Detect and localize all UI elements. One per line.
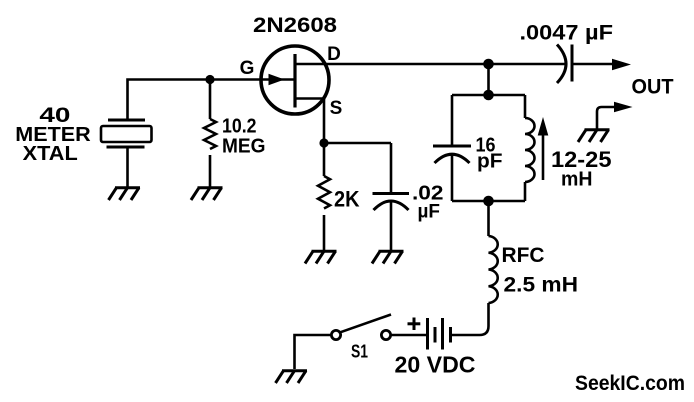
svg-text:D: D: [327, 44, 341, 65]
wire: output return arrow: [597, 107, 614, 129]
capacitor C2 16 pF plates: [433, 146, 471, 163]
inductor L1 12-25 mH top lead: [524, 95, 527, 118]
wire: resistor R1 bottom lead: [209, 155, 212, 187]
transistor Q1 source lead: [295, 97, 324, 100]
ground (R2): [305, 251, 337, 263]
svg-text:G: G: [240, 58, 255, 79]
capacitor C1 .02 uF plates: [373, 194, 410, 211]
switch S1 throw circle: [381, 330, 390, 339]
wire: source node to C1 top: [324, 142, 391, 145]
wire: drain node down to tank top: [487, 64, 490, 95]
battery plus sign: [408, 318, 421, 331]
svg-text:S: S: [330, 98, 343, 119]
svg-text:OUT: OUT: [632, 76, 674, 99]
svg-text:.0047 µF: .0047 µF: [520, 22, 614, 45]
inductor RFC coil: [489, 236, 498, 303]
node G junction dot: [205, 75, 214, 84]
wire: C2 bottom lead: [451, 155, 454, 202]
wire: R2 bottom lead: [323, 215, 326, 250]
output arrowhead: [612, 59, 631, 70]
ground (output return): [578, 130, 610, 142]
node tank top junction dot: [483, 90, 494, 101]
svg-text:XTAL: XTAL: [23, 143, 78, 165]
svg-text:pF: pF: [477, 151, 503, 173]
wire: ground riser to switch: [295, 335, 332, 369]
wire: C3 to output arrow: [572, 63, 612, 66]
node tank bottom junction dot: [483, 196, 494, 207]
svg-text:20 VDC: 20 VDC: [395, 352, 476, 378]
node drain junction dot: [483, 59, 494, 70]
ground (R1): [191, 188, 223, 200]
wire: C1 bottom lead: [390, 201, 393, 250]
wire: switch to battery: [391, 334, 428, 337]
transistor Q1 channel bar: [293, 54, 296, 108]
resistor R1 10.2 MEG zigzag: [204, 119, 216, 149]
wire: tank bottom rail: [452, 200, 525, 203]
ground (crystal): [109, 188, 141, 200]
svg-text:SeekIC.com: SeekIC.com: [575, 372, 685, 395]
wire: source down to source node: [323, 99, 326, 144]
node S junction dot: [319, 138, 328, 147]
wire: C1 top lead: [390, 143, 393, 193]
inductor L1 coil: [525, 118, 535, 182]
transistor Q1 gate lead inside: [263, 78, 295, 81]
svg-text:S1: S1: [351, 342, 368, 362]
svg-text:2N2608: 2N2608: [253, 14, 337, 37]
svg-text:2K: 2K: [334, 187, 360, 212]
svg-text:µF: µF: [418, 202, 441, 223]
resistor R2 2K top lead: [323, 143, 326, 176]
wire: tank top rail: [452, 94, 525, 97]
resistor R1 10.2 MEG top lead: [209, 80, 212, 120]
capacitor C3 .0047 uF curved plate: [557, 45, 566, 84]
wire: C2 top lead: [451, 95, 454, 146]
output return arrowhead: [614, 102, 633, 113]
transistor Q1 gate arrowhead: [269, 74, 285, 86]
svg-text:mH: mH: [561, 169, 593, 191]
wire: gate node to transistor gate: [210, 78, 263, 81]
svg-text:RFC: RFC: [502, 244, 545, 267]
switch S1 pole circle: [331, 330, 340, 339]
wire: crystal bottom lead: [126, 147, 129, 187]
wire: RFC bottom lead to battery: [451, 303, 489, 335]
resistor R2 2K zigzag: [318, 176, 330, 209]
switch S1 blade: [340, 315, 391, 333]
inductor RFC top lead: [487, 201, 490, 236]
capacitor C3 straight plate: [571, 45, 574, 82]
transistor Q1 2N2608 circle: [261, 46, 329, 114]
crystal Y1 40 meter XTAL: [101, 120, 152, 147]
svg-text:10.2: 10.2: [222, 116, 257, 138]
svg-text:MEG: MEG: [222, 136, 266, 158]
wire: drain rail: [295, 63, 565, 66]
wire: crystal Y1 top lead to gate rail: [128, 80, 211, 121]
battery B1 20 VDC plates: [428, 318, 451, 350]
inductor L1 bottom lead: [524, 182, 527, 201]
ground (switch): [276, 371, 308, 383]
svg-text:2.5 mH: 2.5 mH: [504, 274, 579, 297]
tuning arrow for L1: [538, 117, 549, 180]
ground (C1): [372, 251, 404, 263]
